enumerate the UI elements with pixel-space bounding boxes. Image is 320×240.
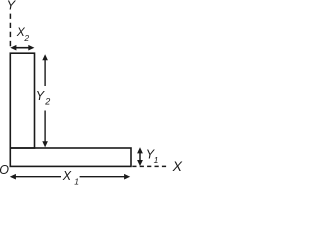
- dimension Y1 double arrow: [137, 147, 143, 166]
- dimension Y2 lower arrow segment: [42, 111, 48, 148]
- dimension X2 double arrow: [10, 45, 34, 51]
- Y axis dashed line: [9, 14, 11, 47]
- dimension X1 right arrow segment: [80, 174, 131, 180]
- flange rectangle (horizontal limb): [10, 148, 131, 166]
- web rectangle (vertical limb): [10, 53, 34, 148]
- svg-text:X: X: [62, 169, 72, 183]
- svg-text:Y: Y: [7, 0, 17, 13]
- dimension X1 left arrow segment: [10, 174, 61, 180]
- svg-text:O: O: [0, 163, 9, 177]
- svg-text:1: 1: [154, 155, 159, 165]
- svg-text:2: 2: [23, 33, 29, 43]
- svg-text:X: X: [172, 158, 183, 174]
- dimension Y2 upper arrow segment: [42, 54, 48, 86]
- svg-text:2: 2: [44, 97, 50, 107]
- X axis dashed line: [132, 165, 168, 167]
- svg-text:1: 1: [74, 176, 79, 185]
